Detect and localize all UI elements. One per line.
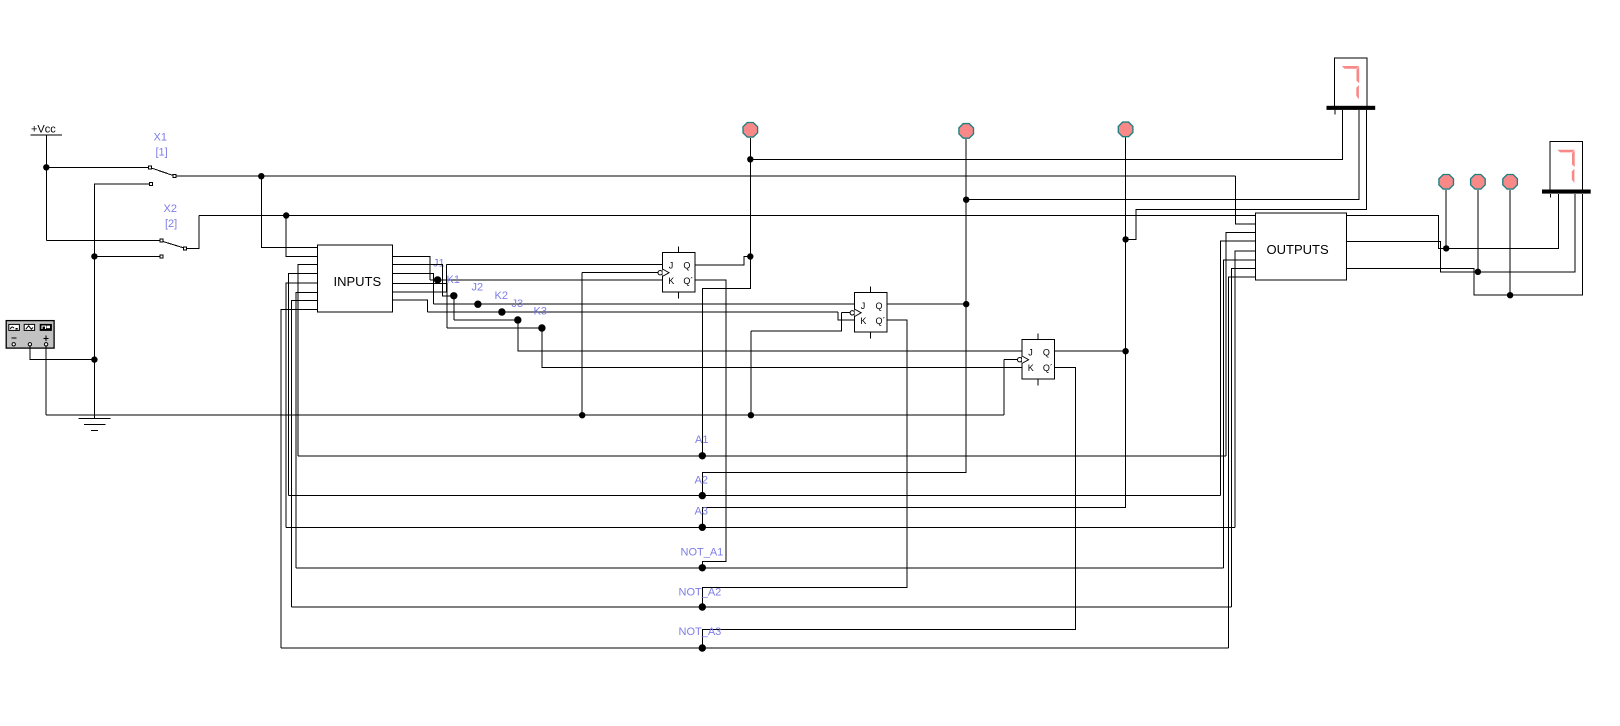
probe P5 xyxy=(1471,175,1486,190)
node probe6 junction xyxy=(1507,292,1513,298)
wire net A2 to display U4 pin3 xyxy=(966,110,1359,200)
node tag K1 corner xyxy=(450,292,457,299)
wire INPUTS pin q4 staircase xyxy=(393,283,447,328)
node clock tap FF2 xyxy=(748,412,754,418)
wire FF3 Qbar output xyxy=(702,367,1075,648)
wire net A1 to display U4 pin2 xyxy=(750,110,1342,159)
wire X2 output jog xyxy=(187,216,199,249)
function generator terminal plus xyxy=(44,343,47,346)
underline of +Vcc xyxy=(31,134,63,136)
flip-flop U1 clock bubble xyxy=(658,271,662,275)
display U4 unconnected pin stub xyxy=(1334,110,1336,114)
ground bar 2 xyxy=(84,424,106,426)
svg-text:K3: K3 xyxy=(534,305,547,317)
flip-flop U3 top stub xyxy=(1037,333,1039,339)
wire A1 drop xyxy=(702,257,750,456)
wire net J1 horizontal to FF1 K xyxy=(430,279,663,281)
node NOT_A1 tag xyxy=(699,564,706,571)
svg-text:A1: A1 xyxy=(695,434,708,446)
seven-segment display U5 segment a xyxy=(1557,150,1574,153)
svg-text:K: K xyxy=(1028,363,1034,373)
wire probe4 stem xyxy=(1445,190,1447,248)
wire clock line xyxy=(46,414,1004,416)
wire FF3 clock riser xyxy=(1003,360,1005,416)
svg-text:J: J xyxy=(669,261,674,271)
probe P2 xyxy=(959,124,974,139)
wire A3 feedback riser xyxy=(286,283,317,527)
node tag K2 xyxy=(498,308,505,315)
svg-text:K1: K1 xyxy=(447,274,460,286)
wire X1 unused throw to ground bus xyxy=(94,184,149,256)
wire A2 drop xyxy=(702,304,966,496)
wire A2 line xyxy=(289,495,1221,497)
wire probe2 stem xyxy=(965,139,967,200)
node tag J2 xyxy=(474,301,481,308)
node NOT_A2 tag xyxy=(699,603,706,610)
node clock tap FF1 xyxy=(579,412,585,418)
flip-flop U1 top stub xyxy=(678,246,680,252)
wire NOT_A1 line xyxy=(296,567,1224,569)
function generator triangle glyph xyxy=(26,326,33,329)
svg-text:Q´: Q´ xyxy=(683,276,693,286)
wire probe4 net to display U5 pin2 xyxy=(1446,194,1558,249)
node tag K3 xyxy=(538,324,545,331)
wire A2 feedback riser xyxy=(289,273,318,495)
node probe2 display tap xyxy=(963,197,969,203)
function generator terminal common xyxy=(28,343,31,346)
wire A2 riser to OUTPUTS xyxy=(1221,241,1256,495)
svg-text:INPUTS: INPUTS xyxy=(334,274,382,289)
wire INPUTS pin q5 to net K1 xyxy=(393,264,447,292)
wire FF1 Q output jog xyxy=(695,257,750,266)
wire FF3 clock stub xyxy=(1004,359,1018,361)
wire probe3 stem to FF3 Q xyxy=(1125,239,1127,351)
seven-segment display U5 body xyxy=(1550,142,1582,191)
node FF3 Q / probe3 junction xyxy=(1122,348,1128,354)
wire net J2 horizontal to FF2 J xyxy=(434,303,855,305)
wire INPUTS pin q3 to net J2 xyxy=(393,273,434,304)
probe P4 xyxy=(1439,175,1454,190)
ground bar 3 xyxy=(91,429,98,431)
node probe4 junction xyxy=(1443,245,1449,251)
wire Vcc down to X2 branch xyxy=(45,167,47,240)
wire X1 net to right (to OUTPUTS riser) xyxy=(176,175,1235,177)
node A3 tag xyxy=(699,524,706,531)
wire FF2 clock riser xyxy=(751,312,842,331)
wire INPUTS pin q2 staircase xyxy=(393,265,454,296)
wire INPUTS pin q6 to net K2 xyxy=(393,300,428,312)
wire net K1 horizontal to FF1 J xyxy=(447,263,663,265)
switch X2 blade xyxy=(163,241,184,248)
flip-flop U3 clock bubble xyxy=(1018,358,1022,362)
wire Vcc branch to X2 pole xyxy=(46,240,160,242)
function generator sine button xyxy=(9,324,20,330)
wire net K2 horizontal xyxy=(428,311,839,313)
svg-text:OUTPUTS: OUTPUTS xyxy=(1267,242,1329,257)
flip-flop U2 top stub xyxy=(870,287,872,293)
node probe5 junction xyxy=(1475,269,1481,275)
wire FF1 clock riser xyxy=(581,273,583,416)
svg-text:Q: Q xyxy=(683,261,690,271)
wire probe5 net to display U5 pin3 xyxy=(1478,194,1575,272)
function generator XFG1 body xyxy=(6,321,54,349)
flip-flop U2 clock bubble xyxy=(850,311,854,315)
wire NOT_A2 feedback riser xyxy=(292,301,318,607)
wire ground stem xyxy=(93,360,95,419)
node NOT_A3 tag xyxy=(699,644,706,651)
seven-segment display U4 base bar xyxy=(1327,106,1376,110)
function generator terminal minus xyxy=(12,343,15,346)
wire X1 riser down to OUTPUTS pin xyxy=(1236,176,1256,224)
node FF1 Q / probe1 junction xyxy=(747,253,753,259)
node unused throws junction xyxy=(91,253,97,259)
wire INPUTS pin q1 to net J1 xyxy=(393,257,430,280)
svg-text:J: J xyxy=(861,301,866,311)
seven-segment display U5 base bar xyxy=(1542,190,1591,194)
function generator sine glyph xyxy=(10,327,14,329)
svg-text:A2: A2 xyxy=(695,474,708,486)
wire OUTPUTS pin to probe5 net xyxy=(1347,242,1478,272)
seven-segment display U4 body xyxy=(1335,58,1367,107)
node A2 tag xyxy=(699,492,706,499)
wire OUTPUTS pin to probe6 net xyxy=(1347,268,1511,295)
ground bar 1 xyxy=(78,418,110,420)
switch X1 pole terminal xyxy=(149,166,152,169)
wire X2 net to OUTPUTS xyxy=(199,215,1255,217)
wire net K2 jog into FF2 K pin xyxy=(838,312,854,320)
wire NOT_A1 feedback riser xyxy=(296,293,318,568)
probe P6 xyxy=(1503,175,1518,190)
seven-segment display U4 segment a xyxy=(1342,66,1359,69)
svg-text:K2: K2 xyxy=(495,290,508,302)
wire FF2 clock tap from clock line xyxy=(750,331,752,415)
wire net K3 drop and run to FF3 K xyxy=(542,328,1022,368)
node probe3 display tap xyxy=(1122,236,1128,242)
svg-text:K: K xyxy=(860,316,866,326)
node A1 tag xyxy=(699,452,706,459)
wire NOT_A2 line xyxy=(292,606,1232,608)
wire generator plus down xyxy=(45,346,47,415)
svg-text:[2]: [2] xyxy=(165,218,177,230)
function generator minus sign xyxy=(11,337,16,339)
wire NOT_A2 riser to OUTPUTS xyxy=(1232,268,1256,607)
wire to X2 unused throw xyxy=(94,255,160,257)
wire net J3 drop from tag xyxy=(453,296,455,320)
wire FF2 clock stub xyxy=(842,311,851,313)
wire probe6 stem xyxy=(1509,190,1511,295)
wire net A3 to display U4 pin4 xyxy=(1126,110,1367,239)
function generator square glyph xyxy=(42,326,46,329)
node tag J3 xyxy=(514,316,521,323)
switch X2 output terminal xyxy=(184,247,187,250)
wire FF2 Q output xyxy=(887,303,966,305)
wire NOT_A1 riser to OUTPUTS xyxy=(1223,260,1255,568)
wire A3 riser to OUTPUTS xyxy=(1235,251,1256,527)
wire net J3 drop and run to FF3 J xyxy=(518,320,1022,351)
wire FF3 Q output xyxy=(1055,350,1126,352)
wire X2 riser to INPUTS pin2 xyxy=(286,216,317,257)
svg-text:J: J xyxy=(1028,348,1033,358)
wire NOT_A3 line xyxy=(281,647,1229,649)
svg-text:+Vcc: +Vcc xyxy=(31,124,56,136)
svg-text:Q´: Q´ xyxy=(1043,363,1053,373)
node generator/ground junction xyxy=(91,356,97,362)
flip-flop U1 body xyxy=(663,253,696,292)
seven-segment display U4 segment c xyxy=(1356,85,1359,99)
wire FF1 clock from clock line xyxy=(582,272,658,274)
svg-text:NOT_A3: NOT_A3 xyxy=(679,626,722,638)
svg-text:A3: A3 xyxy=(695,505,708,517)
svg-text:[1]: [1] xyxy=(156,147,168,159)
switch X1 output terminal xyxy=(173,175,176,178)
svg-text:Q: Q xyxy=(1043,348,1050,358)
svg-text:X2: X2 xyxy=(164,203,177,215)
node tag J1 xyxy=(434,276,441,283)
flip-flop U2 bottom stub xyxy=(870,332,872,338)
wire generator common to ground bus xyxy=(30,346,95,360)
probe P1 xyxy=(743,123,758,138)
flip-flop U2 clock triangle xyxy=(855,309,862,316)
svg-text:J2: J2 xyxy=(472,281,484,293)
seven-segment display U5 segment c xyxy=(1572,169,1575,183)
wire net K3 horizontal xyxy=(447,327,542,329)
wire probe2 stem to FF2 Q xyxy=(965,200,967,304)
wire probe1 stem to FF1 Q xyxy=(749,159,751,256)
function generator triangle button xyxy=(24,324,34,330)
function generator square button (selected) xyxy=(40,324,51,330)
node X2 tap to INPUTS xyxy=(283,212,289,218)
wire probe3 stem xyxy=(1125,138,1127,240)
svg-text:K: K xyxy=(668,276,674,286)
flip-flop U3 bottom stub xyxy=(1037,379,1039,385)
switch X2 unused throw terminal xyxy=(160,255,163,258)
subcircuit INPUTS box xyxy=(318,245,393,312)
wire A3 line xyxy=(286,526,1235,528)
wire net J3 horizontal xyxy=(454,319,518,321)
wire FF1 Qbar output xyxy=(695,280,726,568)
switch X1 blade xyxy=(151,168,173,176)
display U5 unconnected pin stub xyxy=(1549,194,1551,198)
switch X2 pole terminal xyxy=(160,239,163,242)
flip-flop U2 body xyxy=(855,293,888,332)
wire OUTPUTS pin to probe4 net xyxy=(1347,215,1447,248)
seven-segment display U5 segment b xyxy=(1572,150,1575,167)
probe P3 xyxy=(1118,122,1133,137)
wire A1 feedback riser xyxy=(298,265,318,456)
flip-flop U3 body xyxy=(1022,340,1055,379)
node X1 tap to INPUTS xyxy=(258,173,264,179)
wire Vcc to X1 pole xyxy=(46,166,150,168)
wire probe6 net to display U5 pin4 xyxy=(1510,194,1583,295)
wire Vcc vertical drop xyxy=(45,135,47,167)
svg-text:Q´: Q´ xyxy=(876,316,886,326)
wire ground bus down xyxy=(93,256,95,359)
switch X1 unused throw terminal xyxy=(150,183,153,186)
node FF2 Q / probe2 junction xyxy=(963,301,969,307)
svg-text:J3: J3 xyxy=(512,298,524,310)
wire A1 riser to OUTPUTS xyxy=(1226,232,1255,455)
seven-segment display U4 segment b xyxy=(1357,67,1360,84)
node probe1 display tap xyxy=(747,156,753,162)
function generator plus sign xyxy=(44,336,49,341)
wire A3 drop xyxy=(702,351,1125,527)
wire FF2 Qbar output xyxy=(702,320,907,607)
subcircuit OUTPUTS box xyxy=(1256,213,1347,280)
flip-flop U3 clock triangle xyxy=(1022,356,1029,363)
svg-text:NOT_A1: NOT_A1 xyxy=(681,546,724,558)
wire X1 riser to INPUTS pin1 xyxy=(261,176,317,247)
svg-text:NOT_A2: NOT_A2 xyxy=(679,586,722,598)
svg-text:X1: X1 xyxy=(154,132,167,144)
wire probe1 stem xyxy=(749,138,751,159)
flip-flop U1 clock triangle xyxy=(663,269,670,276)
wire A1 line xyxy=(298,455,1226,457)
flip-flop U1 bottom stub xyxy=(678,292,680,298)
node Vcc junction xyxy=(43,164,49,170)
wire probe5 stem xyxy=(1477,190,1479,272)
svg-text:Q: Q xyxy=(876,301,883,311)
wire NOT_A3 feedback riser xyxy=(281,309,317,648)
wire NOT_A3 riser to OUTPUTS xyxy=(1229,277,1256,648)
